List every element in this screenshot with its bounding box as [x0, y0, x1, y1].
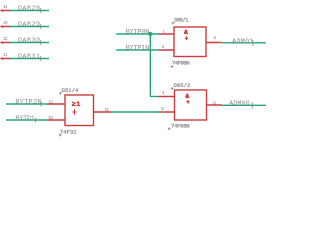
svg-text:BYTP2N: BYTP2N — [15, 99, 41, 107]
svg-text:DAB28: DAB28 — [18, 5, 40, 13]
svg-text:2: 2 — [162, 44, 165, 50]
svg-text:8: 8 — [213, 101, 216, 107]
svg-text:D65/1: D65/1 — [174, 17, 189, 24]
svg-text:D65/2: D65/2 — [174, 82, 191, 89]
svg-text:ADM01: ADM01 — [232, 38, 253, 46]
svg-text:DAB29: DAB29 — [18, 21, 40, 29]
svg-text:BYTP0N: BYTP0N — [126, 29, 149, 37]
svg-text:74F32: 74F32 — [60, 128, 77, 135]
svg-text:4: 4 — [162, 90, 165, 96]
svg-text:5: 5 — [161, 106, 164, 112]
svg-text:&: & — [185, 93, 189, 100]
svg-text:DAB30: DAB30 — [18, 37, 40, 45]
svg-text:1: 1 — [162, 28, 165, 34]
svg-text:≥1: ≥1 — [72, 101, 81, 109]
svg-text:&: & — [184, 29, 188, 36]
svg-text:3: 3 — [213, 35, 216, 41]
svg-text:74F08N: 74F08N — [172, 60, 190, 67]
svg-text:DAB31: DAB31 — [18, 53, 40, 61]
svg-text:BYTP1N: BYTP1N — [126, 45, 149, 53]
svg-text:D51/4: D51/4 — [62, 87, 79, 94]
svg-text:74F08N: 74F08N — [171, 123, 190, 130]
svg-text:BYTP1: BYTP1 — [15, 115, 35, 123]
svg-text:ADM00: ADM00 — [229, 100, 250, 108]
